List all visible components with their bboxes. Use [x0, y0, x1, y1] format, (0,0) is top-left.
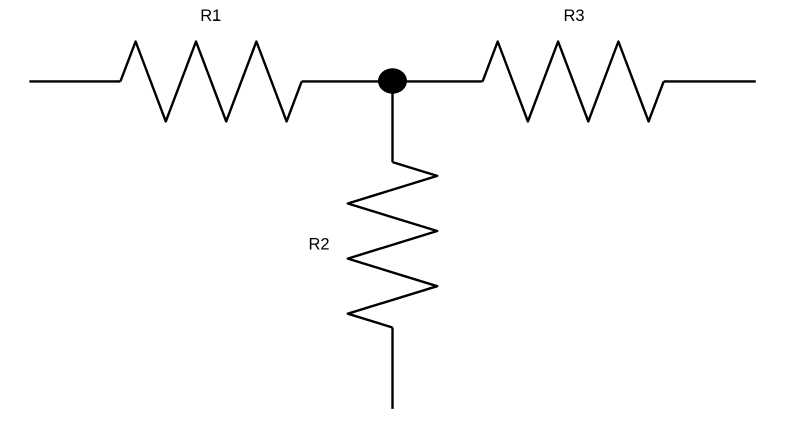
svg-text:R2: R2	[308, 236, 329, 254]
resistor R2	[348, 162, 437, 327]
svg-text:R1: R1	[200, 7, 221, 25]
resistor R1	[120, 42, 301, 122]
label R1	[200, 7, 221, 25]
wire node to R2	[391, 81, 393, 162]
wire left lead into R1	[29, 80, 120, 82]
wire right lead of R3	[664, 80, 756, 82]
resistor R3	[483, 42, 664, 122]
wire R1 to node	[302, 80, 393, 82]
node junction dot	[378, 68, 407, 93]
wire bottom lead of R2	[391, 328, 393, 409]
svg-text:R3: R3	[563, 7, 584, 25]
wire node to R3	[393, 80, 483, 82]
